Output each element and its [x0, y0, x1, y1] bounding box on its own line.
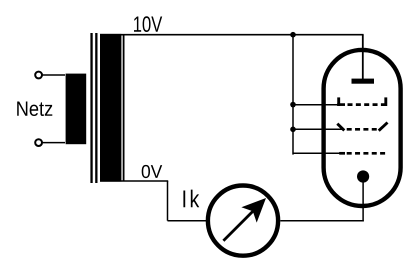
tube cathode dot — [357, 170, 369, 182]
tube grid g1 base — [337, 103, 345, 106]
wire into meter — [168, 220, 207, 222]
wire T2 to primary — [42, 142, 65, 144]
label Netz — [17, 102, 52, 117]
label Ik — [183, 190, 199, 208]
secondary lead line — [123, 35, 125, 181]
transformer secondary winding — [100, 34, 121, 182]
wire bus to grid3 — [293, 152, 340, 154]
transformer core line 1 — [90, 33, 92, 183]
wire cathode lead up — [362, 177, 364, 222]
tube grid g2 tick left — [337, 124, 344, 131]
wire T1 to primary — [42, 74, 65, 76]
tube V1 envelope — [324, 50, 401, 206]
transformer primary winding — [66, 74, 87, 145]
wire grid bus vertical — [292, 35, 294, 155]
tube grid g2 dashes — [347, 128, 377, 131]
transformer core line 2 — [95, 33, 97, 183]
tube grid g3 first dash — [339, 152, 345, 155]
tube grid g3 dashes — [347, 152, 386, 155]
tube grid g1 dashes — [348, 103, 386, 106]
meter M1 (Ik ammeter) body — [208, 186, 278, 256]
junction node grid2 — [290, 127, 296, 133]
meter M1 needle — [223, 210, 254, 241]
tube grid g2 tick right — [379, 123, 388, 131]
label 0V — [142, 165, 163, 178]
wire 0V rail — [100, 180, 168, 182]
wire bus to grid2 — [293, 128, 344, 130]
label 10V — [134, 16, 162, 32]
wire bus to grid1 — [293, 104, 344, 106]
junction node on 10V rail — [290, 32, 296, 38]
wire 0V down to meter — [167, 181, 169, 221]
terminal T2 (mains bottom) — [35, 139, 42, 146]
meter M1 needle head — [241, 198, 266, 223]
wire 10V rail — [100, 34, 364, 36]
tube grid g1 tick right — [384, 97, 387, 106]
wire meter to cathode — [280, 220, 364, 222]
tube anode plate — [352, 79, 375, 84]
tube grid g1 tick left — [337, 97, 340, 106]
terminal T1 (mains top) — [35, 72, 42, 79]
junction node grid1 — [290, 102, 296, 108]
wire anode lead down — [362, 35, 364, 79]
